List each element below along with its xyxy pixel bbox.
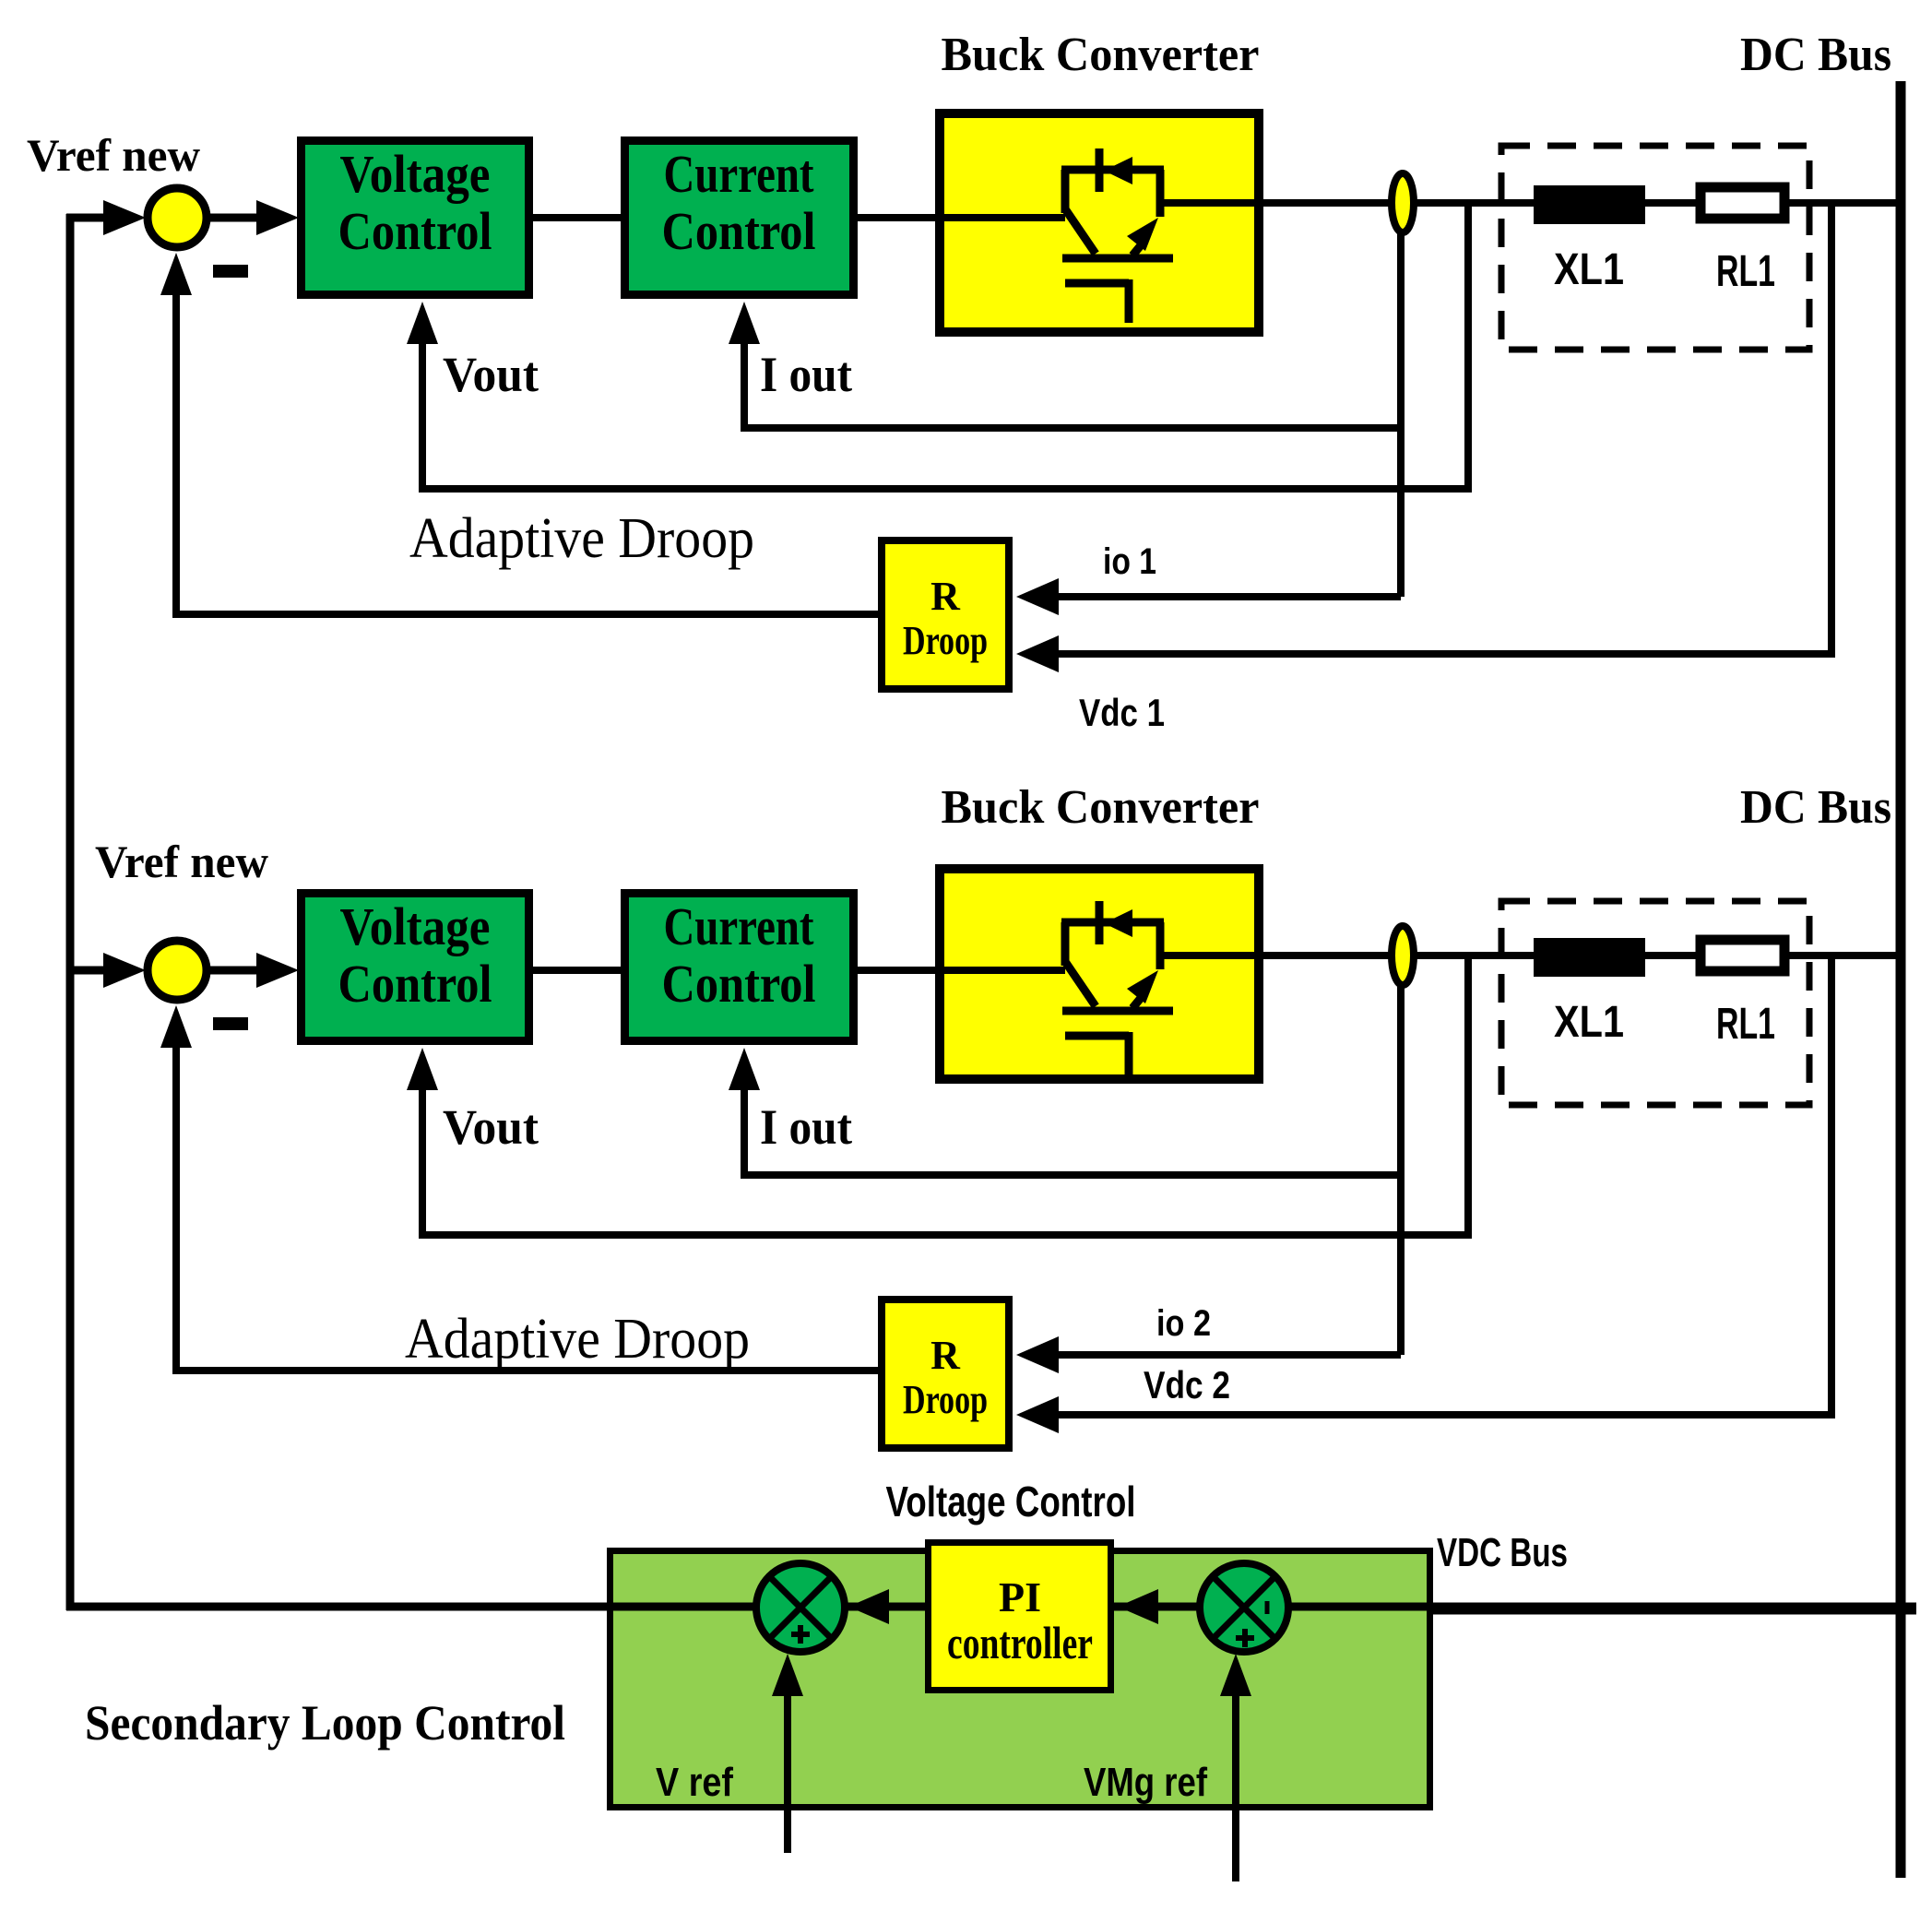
block: Secondary Loop Control outer box (light green) bbox=[610, 1551, 1430, 1808]
svg-text:Vref new: Vref new bbox=[95, 836, 268, 887]
svg-text:XL1: XL1 bbox=[1554, 245, 1624, 294]
svg-text:RL1: RL1 bbox=[1716, 247, 1775, 296]
svg-text:Vref new: Vref new bbox=[27, 129, 200, 181]
wire: Iout feedback from current sensor 1 bbox=[1397, 229, 1405, 597]
wire: thick segment of VDC bus bottom line bbox=[1433, 1603, 1916, 1615]
node: left summing circle (V ref + PI output) bbox=[756, 1563, 845, 1652]
svg-text:Buck Converter: Buck Converter bbox=[942, 29, 1260, 81]
svg-text:Voltage: Voltage bbox=[340, 144, 491, 204]
node: current sensor ellipse 1 bbox=[1392, 173, 1414, 232]
block: Voltage Control 1 bbox=[302, 141, 529, 295]
svg-text:Droop: Droop bbox=[903, 618, 988, 663]
svg-text:V ref: V ref bbox=[656, 1760, 733, 1805]
wire: Current Control to Buck Converter 1 bbox=[858, 214, 1065, 221]
wire: VDC bus line through secondary control bbox=[610, 1603, 1433, 1611]
svg-text:Vdc 1: Vdc 1 bbox=[1079, 691, 1165, 734]
svg-text:Vout: Vout bbox=[443, 1099, 539, 1155]
svg-text:VDC Bus: VDC Bus bbox=[1437, 1530, 1568, 1575]
svg-text:io 1: io 1 bbox=[1103, 541, 1156, 582]
node: right summing circle (VMg ref vs VDC bus) bbox=[1200, 1563, 1288, 1652]
svg-text:PI: PI bbox=[999, 1573, 1041, 1620]
line impedance dashed box 2 bbox=[1501, 901, 1809, 1105]
wire: Vref new input into summing junction 1 bbox=[66, 214, 105, 222]
svg-text:Buck Converter: Buck Converter bbox=[942, 781, 1260, 834]
wire: Iout feedback from current sensor 2 bbox=[1397, 981, 1405, 1355]
svg-text:Adaptive Droop: Adaptive Droop bbox=[405, 1308, 750, 1371]
plus sign on right summer bbox=[1236, 1635, 1254, 1641]
svg-text:DC Bus: DC Bus bbox=[1740, 781, 1891, 834]
block: Current Control 1 bbox=[625, 141, 854, 295]
wire: buck converter 2 output to DC bus bbox=[1263, 952, 1902, 959]
wire: io 1 line into R Droop bbox=[1057, 593, 1401, 600]
wire: VMg ref input arrow bbox=[1232, 1694, 1239, 1881]
wire: buck converter 2 internal output bbox=[1160, 952, 1271, 959]
wire: Vout feedback tap 2 bbox=[422, 955, 1468, 1235]
wire: Vdc 2 line from DC bus to R Droop bbox=[1057, 955, 1831, 1415]
block: PI controller bbox=[929, 1543, 1111, 1691]
svg-text:Voltage: Voltage bbox=[340, 896, 491, 956]
wire: R Droop 1 output to summing junction minus input bbox=[176, 295, 878, 614]
svg-text:I out: I out bbox=[760, 347, 852, 402]
wire: io 2 line into R Droop bbox=[1057, 1351, 1401, 1359]
wire: Vref new input into summing junction 2 bbox=[66, 967, 105, 975]
svg-text:XL1: XL1 bbox=[1554, 998, 1624, 1047]
transistor (IGBT) inside buck converter 2 bbox=[1061, 901, 1173, 1075]
svg-text:VMg ref: VMg ref bbox=[1084, 1760, 1207, 1805]
resistor RL1 (converter 2) bbox=[1701, 940, 1784, 971]
plus sign on left summer bbox=[791, 1632, 810, 1637]
line impedance dashed box 1 bbox=[1501, 146, 1809, 350]
svg-text:RL1: RL1 bbox=[1716, 1000, 1775, 1049]
block: Current Control 2 bbox=[625, 894, 854, 1041]
wire: right summer output into PI controller bbox=[1158, 1603, 1200, 1610]
wire: PI controller output to left summer bbox=[887, 1603, 925, 1610]
node: summing junction 1 (Vref new) bbox=[148, 188, 207, 247]
minus sign at summing junction 2 bbox=[213, 1017, 248, 1030]
minus sign at summing junction 1 bbox=[213, 265, 248, 278]
wire: V ref input arrow bbox=[784, 1694, 791, 1853]
svg-text:Secondary Loop Control: Secondary Loop Control bbox=[85, 1695, 565, 1751]
block: R Droop 1 bbox=[882, 540, 1009, 689]
svg-text:DC Bus: DC Bus bbox=[1740, 29, 1891, 81]
svg-text:Vdc 2: Vdc 2 bbox=[1144, 1363, 1230, 1407]
wire: Voltage Control to Current Control 1 bbox=[533, 214, 621, 221]
minus tick on right summer bbox=[1265, 1601, 1270, 1614]
wire: Current Control to Buck Converter 2 bbox=[858, 967, 1065, 974]
svg-text:Droop: Droop bbox=[903, 1377, 988, 1422]
wire: DC bus vertical line bbox=[1896, 81, 1906, 1878]
wire: Voltage Control to Current Control 2 bbox=[533, 967, 621, 974]
node: current sensor ellipse 2 bbox=[1392, 926, 1414, 985]
wire: Vout feedback tap 1 bbox=[422, 203, 1468, 489]
svg-text:Current: Current bbox=[664, 144, 815, 204]
wire: summing junction 1 output to Voltage Control bbox=[210, 214, 258, 222]
wire: Vdc 1 line from DC bus to R Droop bbox=[1057, 203, 1831, 654]
svg-text:Voltage Control: Voltage Control bbox=[886, 1478, 1136, 1525]
transistor (IGBT) inside buck converter 1 bbox=[1061, 148, 1173, 323]
svg-text:R: R bbox=[930, 574, 961, 619]
wire: buck converter 1 output to DC bus bbox=[1263, 199, 1902, 207]
svg-text:Control: Control bbox=[662, 201, 816, 261]
inductor XL1 (converter 2) bbox=[1534, 938, 1645, 977]
svg-text:Control: Control bbox=[662, 954, 816, 1014]
wire: buck converter 1 internal output bbox=[1160, 199, 1271, 207]
wire: summing junction 2 output to Voltage Control bbox=[210, 967, 258, 975]
wire: left feedback rail (Vref new distribution) bbox=[66, 214, 75, 1610]
svg-text:controller: controller bbox=[947, 1617, 1093, 1668]
svg-text:R: R bbox=[930, 1333, 961, 1378]
resistor RL1 (converter 1) bbox=[1701, 187, 1784, 219]
wire: R Droop 2 output to summing junction minus input bbox=[176, 1048, 878, 1371]
inductor XL1 (converter 1) bbox=[1534, 185, 1645, 224]
block: Buck Converter 2 (yellow) bbox=[940, 869, 1259, 1079]
block: R Droop 2 bbox=[882, 1300, 1009, 1448]
block: Buck Converter 1 (yellow) bbox=[940, 113, 1259, 332]
svg-text:Control: Control bbox=[338, 201, 492, 261]
node: summing junction 2 (Vref new) bbox=[148, 941, 207, 1000]
svg-text:I out: I out bbox=[760, 1099, 852, 1155]
svg-text:io 2: io 2 bbox=[1156, 1303, 1211, 1344]
svg-text:Control: Control bbox=[338, 954, 492, 1014]
block: Voltage Control 2 bbox=[302, 894, 529, 1041]
svg-text:Vout: Vout bbox=[443, 347, 539, 402]
svg-text:Current: Current bbox=[664, 896, 815, 956]
svg-text:Adaptive Droop: Adaptive Droop bbox=[409, 507, 754, 570]
